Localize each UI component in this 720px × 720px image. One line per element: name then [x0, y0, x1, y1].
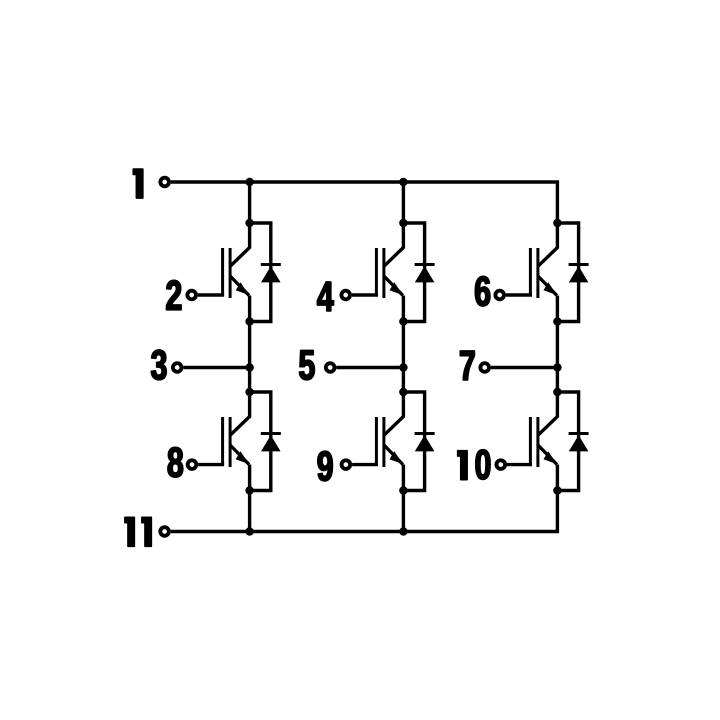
diode D4 anode triangle — [415, 435, 435, 451]
junction dot IGBT Q6 (bottom, leg 3) bottom — [553, 486, 562, 495]
wire leg 2 lower IGBT to bottom rail — [402, 491, 405, 532]
IGBT Q1 (top, leg 1) collector lead wire — [230, 223, 250, 266]
junction dot top rail leg 1 — [245, 178, 254, 187]
wire gate lead pin 2 — [198, 293, 224, 296]
IGBT Q5 (top, leg 3) emitter lead wire — [538, 276, 558, 322]
pin label 1 — [133, 169, 143, 198]
wire pin 3 to leg 1 mid node — [183, 366, 249, 369]
wire leg 3 mid node to lower IGBT — [556, 368, 559, 393]
junction dot mid node leg 1 — [245, 363, 254, 372]
IGBT Q5 (top, leg 3) collector lead wire — [538, 223, 558, 266]
IGBT Q4 (bottom, leg 2) body bar — [382, 417, 385, 467]
diode D5 anti-parallel diode branch wire — [557, 223, 578, 322]
terminal circle pin 3 — [173, 363, 182, 372]
diode D1 anode triangle — [261, 266, 281, 282]
IGBT Q2 (bottom, leg 1) emitter arrowhead — [236, 451, 249, 464]
junction dot top rail leg 2 — [399, 178, 408, 187]
IGBT Q1 (top, leg 1) gate bar — [221, 248, 224, 295]
IGBT Q3 (top, leg 2) body bar — [382, 248, 385, 298]
IGBT Q1 (top, leg 1) body bar — [229, 248, 232, 298]
diode D6 anti-parallel diode branch wire — [557, 392, 578, 491]
wire leg 1 upper IGBT to mid node — [248, 322, 251, 368]
junction dot bottom rail leg 1 — [245, 527, 254, 536]
terminal circle pin 8 — [188, 460, 197, 469]
diode D4 anti-parallel diode branch wire — [403, 392, 424, 491]
IGBT Q3 (top, leg 2) emitter arrowhead — [390, 282, 403, 295]
junction dot IGBT Q3 (top, leg 2) top — [399, 219, 408, 228]
IGBT Q6 (bottom, leg 3) emitter arrowhead — [544, 451, 557, 464]
top collector bus rail (pin 1) wire — [171, 182, 558, 223]
wire gate lead pin 4 — [352, 293, 378, 296]
diode D1 anti-parallel diode branch wire — [250, 223, 271, 322]
junction dot IGBT Q2 (bottom, leg 1) bottom — [245, 486, 254, 495]
junction dot IGBT Q1 (top, leg 1) bottom — [245, 317, 254, 326]
terminal circle pin 11 — [160, 527, 169, 536]
IGBT Q4 (bottom, leg 2) emitter lead wire — [384, 445, 404, 491]
diode D4 cathode bar — [415, 432, 435, 435]
terminal circle pin 6 — [495, 291, 504, 300]
IGBT Q3 (top, leg 2) gate bar — [375, 248, 378, 295]
IGBT Q6 (bottom, leg 3) emitter lead wire — [538, 445, 558, 491]
IGBT Q1 (top, leg 1) emitter arrowhead — [236, 282, 249, 295]
IGBT Q3 (top, leg 2) collector lead wire — [384, 223, 404, 266]
junction dot IGBT Q6 (bottom, leg 3) top — [553, 388, 562, 397]
terminal circle pin 1 — [160, 178, 169, 187]
terminal circle pin 9 — [342, 460, 351, 469]
junction dot mid node leg 3 — [553, 363, 562, 372]
pin label 9 — [318, 451, 333, 481]
pin label 6 — [475, 276, 490, 306]
terminal circle pin 2 — [187, 291, 196, 300]
IGBT Q5 (top, leg 3) body bar — [536, 248, 539, 298]
diode D6 anode triangle — [569, 435, 589, 451]
junction dot bottom rail leg 2 — [399, 527, 408, 536]
wire leg 2 top rail to upper IGBT — [402, 182, 405, 223]
IGBT Q2 (bottom, leg 1) emitter lead wire — [230, 445, 250, 491]
diode D3 cathode bar — [415, 263, 435, 266]
junction dot IGBT Q2 (bottom, leg 1) top — [245, 388, 254, 397]
IGBT Q5 (top, leg 3) emitter arrowhead — [544, 282, 557, 295]
junction dot mid node leg 2 — [399, 363, 408, 372]
terminal circle pin 10 — [497, 460, 506, 469]
junction dot IGBT Q4 (bottom, leg 2) top — [399, 388, 408, 397]
pin label 3 — [151, 350, 166, 380]
terminal circle pin 5 — [326, 363, 335, 372]
wire leg 1 lower IGBT to bottom rail — [248, 491, 251, 532]
pin label 10 — [458, 450, 490, 480]
junction dot IGBT Q1 (top, leg 1) top — [245, 219, 254, 228]
diode D5 cathode bar — [569, 263, 589, 266]
wire gate lead pin 6 — [506, 293, 532, 296]
junction dot IGBT Q4 (bottom, leg 2) bottom — [399, 486, 408, 495]
diode D6 cathode bar — [569, 432, 589, 435]
junction dot IGBT Q5 (top, leg 3) bottom — [553, 317, 562, 326]
wire gate lead pin 9 — [352, 463, 378, 466]
diode D5 anode triangle — [569, 266, 589, 282]
diode D2 anti-parallel diode branch wire — [250, 392, 271, 491]
wire pin 5 to leg 2 mid node — [336, 366, 403, 369]
IGBT Q6 (bottom, leg 3) collector lead wire — [538, 392, 558, 435]
diode D2 anode triangle — [261, 435, 281, 451]
wire leg 1 mid node to lower IGBT — [248, 368, 251, 393]
pin label 8 — [168, 447, 183, 477]
wire leg 1 top rail to upper IGBT — [248, 182, 251, 223]
IGBT Q4 (bottom, leg 2) emitter arrowhead — [390, 451, 403, 464]
IGBT Q1 (top, leg 1) emitter lead wire — [230, 276, 250, 322]
IGBT Q4 (bottom, leg 2) gate bar — [375, 417, 378, 465]
diode D2 cathode bar — [261, 432, 281, 435]
terminal circle pin 4 — [341, 291, 350, 300]
pin label 7 — [460, 351, 474, 380]
wire gate lead pin 10 — [507, 463, 532, 466]
terminal circle pin 7 — [480, 363, 489, 372]
junction dot IGBT Q3 (top, leg 2) bottom — [399, 317, 408, 326]
wire leg 3 upper IGBT to mid node — [556, 322, 559, 368]
diode D3 anode triangle — [415, 266, 435, 282]
pin label 5 — [299, 351, 314, 380]
IGBT Q4 (bottom, leg 2) collector lead wire — [384, 392, 404, 435]
pin label 11 — [125, 517, 151, 546]
diode D3 anti-parallel diode branch wire — [403, 223, 424, 322]
wire gate lead pin 8 — [198, 463, 224, 466]
wire leg 2 upper IGBT to mid node — [402, 322, 405, 368]
IGBT Q2 (bottom, leg 1) body bar — [229, 417, 232, 467]
IGBT Q3 (top, leg 2) emitter lead wire — [384, 276, 404, 322]
bottom emitter bus rail (pin 11) wire — [171, 491, 558, 532]
IGBT Q2 (bottom, leg 1) gate bar — [221, 417, 224, 465]
IGBT Q2 (bottom, leg 1) collector lead wire — [230, 392, 250, 435]
pin label 4 — [317, 282, 333, 311]
IGBT Q6 (bottom, leg 3) body bar — [536, 417, 539, 467]
IGBT Q6 (bottom, leg 3) gate bar — [529, 417, 532, 465]
pin label 2 — [167, 280, 182, 309]
diode D1 cathode bar — [261, 263, 281, 266]
junction dot IGBT Q5 (top, leg 3) top — [553, 219, 562, 228]
wire pin 7 to leg 3 mid node — [491, 366, 558, 369]
IGBT Q5 (top, leg 3) gate bar — [529, 248, 532, 295]
wire leg 2 mid node to lower IGBT — [402, 368, 405, 393]
